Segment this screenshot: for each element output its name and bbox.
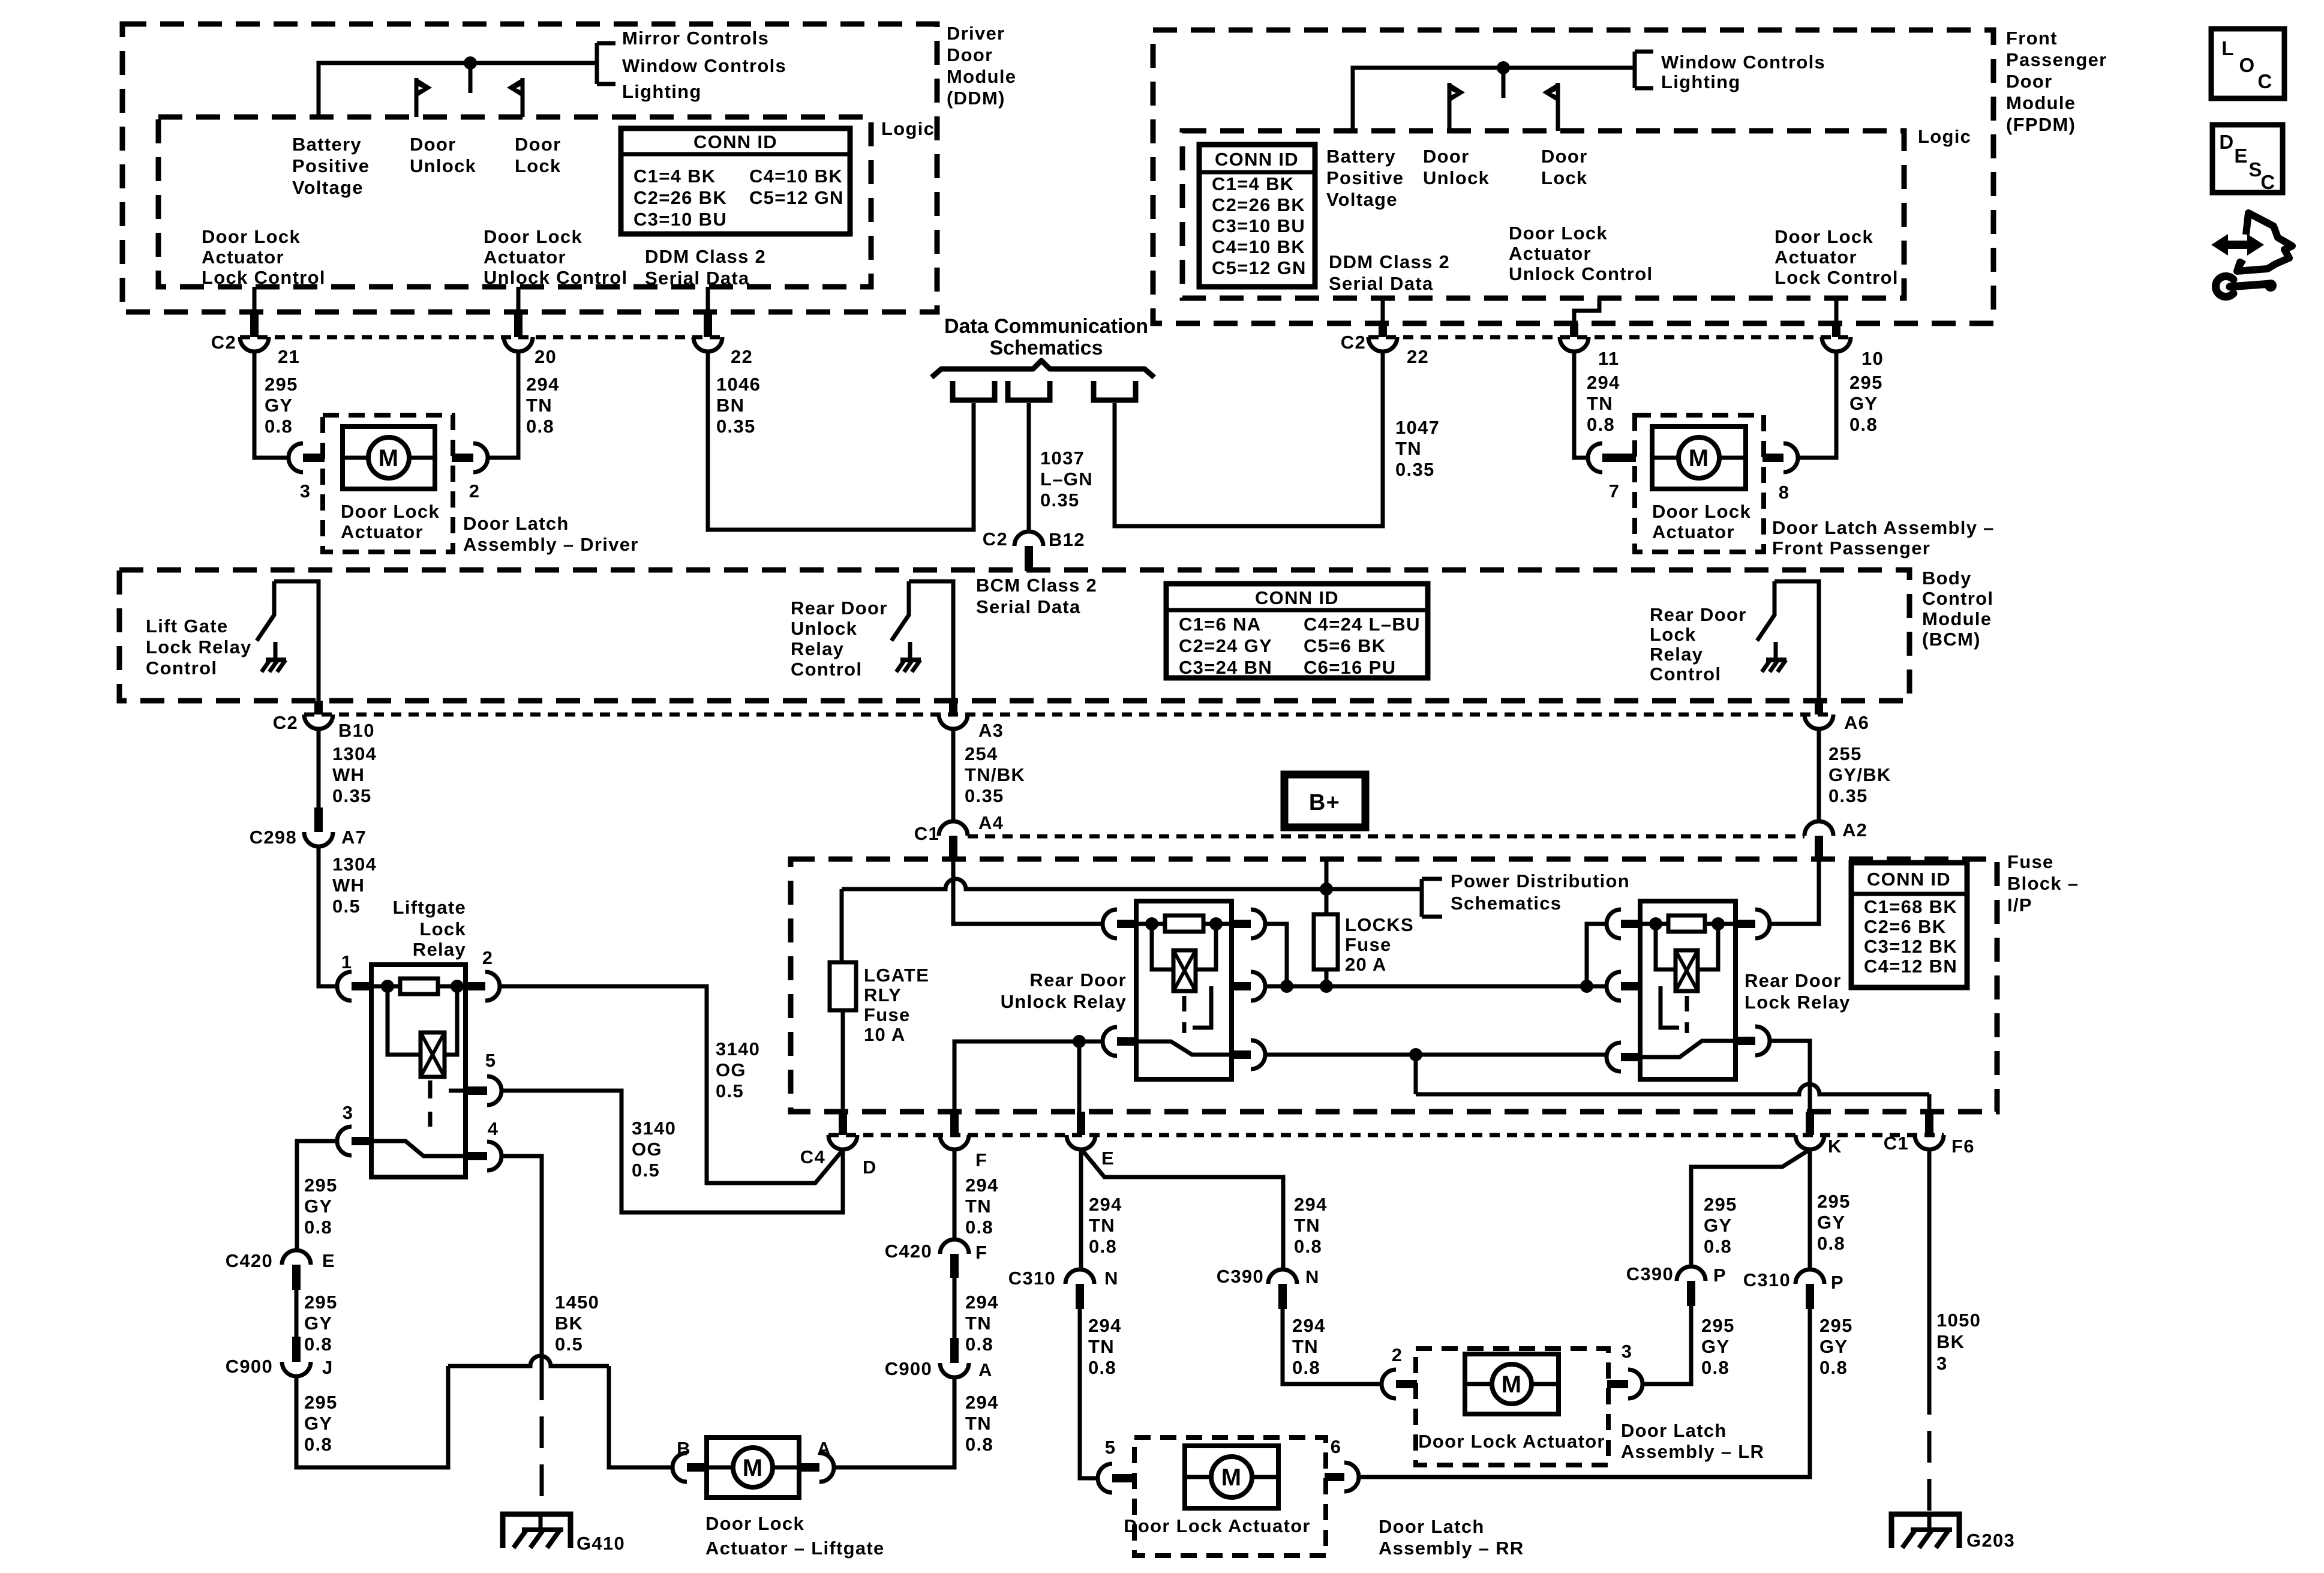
CONN ID table fuse block [1851, 863, 1967, 987]
switch rear door lock relay control (BCM) [1757, 581, 1819, 701]
armature dashes (lock relay) [1661, 986, 1687, 1033]
svg-text:A2: A2 [1842, 819, 1867, 840]
svg-text:Door Latch: Door Latch [1621, 1420, 1727, 1441]
label Door Lock Actuator Lock Control (FPDM) [1774, 226, 1899, 288]
svg-text:C1=68 BK: C1=68 BK [1864, 896, 1957, 917]
svg-text:Relay: Relay [791, 638, 844, 659]
svg-text:A6: A6 [1844, 712, 1869, 733]
connector C298 pin A7 [250, 807, 367, 848]
node lock relay res right [1712, 917, 1725, 930]
svg-text:3: 3 [343, 1102, 354, 1123]
svg-text:Actuator – Liftgate: Actuator – Liftgate [705, 1538, 885, 1559]
node bus at 2145 [1280, 980, 1293, 993]
svg-text:C310: C310 [1743, 1269, 1791, 1290]
svg-text:294: 294 [526, 374, 560, 395]
label Door Latch Assembly - Front Passenger [1772, 517, 1995, 559]
node unlock relay res left [1145, 917, 1158, 930]
wire DDM pin22 lead [706, 287, 710, 312]
svg-text:GY: GY [1704, 1215, 1732, 1236]
svg-text:TN: TN [1089, 1215, 1115, 1236]
svg-text:295: 295 [1849, 372, 1883, 393]
svg-text:GY: GY [1819, 1336, 1848, 1357]
label Door Lock Actuator Lock Control (DDM) [202, 226, 326, 288]
Fuse block bottom strip (dotted) [828, 1133, 1944, 1137]
svg-text:294: 294 [965, 1392, 999, 1413]
svg-text:Schematics: Schematics [990, 337, 1103, 359]
connector C390 pin N [1217, 1266, 1320, 1309]
service icon outline [2237, 213, 2292, 271]
svg-text:Front Passenger: Front Passenger [1772, 538, 1930, 559]
label circuit 254 TN/BK 0.35 [965, 743, 1025, 806]
svg-text:Lock Control: Lock Control [1774, 267, 1899, 288]
svg-text:Unlock: Unlock [410, 155, 476, 176]
svg-text:Actuator: Actuator [341, 521, 424, 542]
svg-text:C5=6 BK: C5=6 BK [1304, 635, 1386, 656]
svg-text:295: 295 [1701, 1315, 1735, 1336]
label DDM Class 2 Serial Data (FPDM) [1329, 251, 1450, 294]
svg-text:295: 295 [304, 1175, 338, 1196]
connector C390 pin P [1626, 1263, 1727, 1306]
armature dashes (liftgate relay) [428, 1080, 433, 1127]
svg-text:Lock: Lock [419, 918, 466, 939]
svg-text:C5=12 GN: C5=12 GN [749, 187, 844, 208]
svg-text:Schematics: Schematics [1451, 893, 1562, 914]
svg-text:M: M [1502, 1371, 1523, 1398]
wire LGATE fuse feed with hop [842, 879, 1422, 962]
label Driver Door Module (DDM) [947, 23, 1016, 109]
svg-text:Relay: Relay [1650, 644, 1703, 665]
svg-text:B: B [677, 1438, 691, 1459]
motor M front passenger door lock actuator [1652, 427, 1746, 489]
svg-text:Fuse: Fuse [2007, 851, 2054, 872]
svg-text:Door Latch Assembly –: Door Latch Assembly – [1772, 517, 1995, 538]
svg-text:254: 254 [965, 743, 998, 764]
svg-text:GY: GY [1817, 1212, 1845, 1233]
wire fused lock bus [1265, 984, 1593, 989]
svg-text:Lock: Lock [1650, 624, 1697, 645]
svg-text:0.35: 0.35 [1828, 785, 1868, 806]
motor M door lock actuator LR [1465, 1354, 1559, 1414]
label Front Passenger Door Module (FPDM) [2006, 28, 2107, 135]
connector pin B (liftgate actuator) [672, 1438, 708, 1482]
svg-text:WH: WH [332, 764, 365, 785]
svg-text:1450: 1450 [555, 1292, 599, 1313]
svg-text:TN: TN [965, 1413, 992, 1434]
svg-text:Driver: Driver [947, 23, 1005, 44]
svg-text:0.8: 0.8 [965, 1217, 993, 1238]
svg-text:3140: 3140 [632, 1118, 676, 1139]
svg-text:(DDM): (DDM) [947, 88, 1005, 109]
svg-text:Rear Door: Rear Door [1744, 970, 1842, 991]
label Door Lock Actuator - Liftgate [705, 1513, 885, 1559]
connector C900 pin A [885, 1338, 993, 1380]
node unlock relay res right [1209, 917, 1223, 930]
svg-text:Lift Gate: Lift Gate [146, 616, 228, 637]
svg-text:TN/BK: TN/BK [965, 764, 1025, 785]
wire unlock common return to F6 [1416, 1055, 1929, 1112]
connector pin A (liftgate actuator) [798, 1438, 834, 1482]
svg-text:0.8: 0.8 [526, 416, 554, 437]
svg-text:BN: BN [716, 395, 744, 416]
wire 1050 BK solid [1927, 1149, 1932, 1383]
wire FPDM pin10 lead [1834, 298, 1839, 323]
svg-text:Module: Module [1922, 608, 1992, 629]
svg-text:2: 2 [469, 481, 481, 502]
connector lock relay pin 85 (mid left) [1607, 972, 1641, 1001]
svg-text:C1: C1 [1884, 1133, 1909, 1154]
svg-text:C4: C4 [800, 1146, 825, 1167]
svg-text:0.8: 0.8 [965, 1434, 993, 1455]
label circuit 295 GY 0.8 (below C310 P) [1819, 1315, 1853, 1378]
svg-text:1304: 1304 [332, 854, 377, 875]
svg-text:Assembly – RR: Assembly – RR [1379, 1538, 1524, 1559]
svg-text:M: M [1221, 1464, 1242, 1491]
Door Latch Assembly LR dashed box [1416, 1349, 1608, 1465]
armature dashes (unlock relay) [1184, 986, 1211, 1033]
svg-text:Door: Door [1541, 146, 1588, 167]
label Liftgate Lock Relay [393, 897, 466, 960]
wire 295 GY to driver actuator [254, 352, 289, 458]
svg-text:C2: C2 [211, 332, 236, 353]
CONN ID table BCM [1166, 584, 1428, 678]
svg-text:7: 7 [1609, 481, 1620, 502]
label Power Distribution Schematics [1451, 870, 1630, 914]
Fuse block connector strip (dotted) [968, 834, 1804, 839]
svg-text:0.8: 0.8 [1817, 1233, 1845, 1254]
motor M driver door lock actuator [343, 427, 435, 489]
svg-text:295: 295 [304, 1392, 338, 1413]
wire FPDM pin22 lead [1381, 298, 1385, 323]
label Window Controls (FPDM) [1661, 52, 1825, 73]
svg-text:C: C [2257, 70, 2272, 92]
wire A6 to A2 [1817, 729, 1821, 821]
label BCM Class 2 Serial Data [976, 575, 1097, 617]
wire A to C900/A [834, 1377, 954, 1467]
svg-text:3140: 3140 [716, 1038, 760, 1059]
wire C420F to C900A [953, 1278, 957, 1338]
label Door Unlock (FPDM) [1423, 146, 1490, 188]
svg-text:C: C [2260, 171, 2275, 193]
svg-text:OG: OG [632, 1139, 662, 1160]
fuse LOCKS 20A [1314, 914, 1338, 969]
svg-text:TN: TN [965, 1313, 992, 1334]
resistor (lock relay) [1640, 915, 1736, 932]
svg-text:Positive: Positive [1326, 167, 1404, 188]
svg-text:Passenger: Passenger [2006, 49, 2107, 70]
node FPDM bus junction [1497, 61, 1510, 98]
svg-text:LOCKS: LOCKS [1345, 914, 1414, 935]
svg-text:5: 5 [1105, 1437, 1116, 1458]
svg-text:LGATE: LGATE [864, 965, 929, 986]
wire FPDM pin11 lead [1574, 298, 1599, 323]
svg-text:E: E [2234, 145, 2248, 167]
Liftgate Lock Relay box [371, 965, 466, 1177]
node junction B+ feed [1320, 882, 1333, 896]
wire A2 to lock relay 87 [1770, 861, 1819, 924]
bracket to window/lighting (FPDM) [1635, 52, 1653, 88]
wire C390P to K [1691, 1149, 1810, 1266]
label Battery Positive Voltage (FPDM) [1326, 146, 1404, 210]
label circuit 295 GY 0.8 (E to J) [304, 1292, 338, 1355]
svg-text:Data Communication: Data Communication [944, 315, 1148, 338]
svg-text:A3: A3 [978, 720, 1004, 741]
svg-text:GY: GY [304, 1313, 332, 1334]
flag Door Lock (DDM) [507, 78, 523, 117]
fuse LGATE RLY 10A [830, 962, 856, 1010]
wire unlock out to lock common [1265, 1053, 1607, 1057]
svg-text:Liftgate: Liftgate [393, 897, 466, 918]
svg-text:294: 294 [1089, 1194, 1122, 1215]
svg-text:B+: B+ [1309, 790, 1340, 815]
wire DDM pin20 lead [517, 287, 521, 312]
svg-text:C900: C900 [885, 1358, 932, 1379]
svg-text:294: 294 [1088, 1315, 1122, 1336]
svg-text:0.35: 0.35 [965, 785, 1004, 806]
label Lighting (FPDM) [1661, 71, 1741, 92]
wire 294 TN to FPDM actuator [1574, 352, 1588, 458]
svg-text:F: F [975, 1149, 987, 1170]
svg-text:1037: 1037 [1040, 448, 1085, 469]
label Door Latch Assembly - LR [1621, 1420, 1764, 1462]
label circuit 295 GY 0.8 (K wire) [1817, 1191, 1851, 1254]
label Door Lock Actuator Unlock Control (FPDM) [1509, 223, 1653, 284]
svg-text:C4=10 BK: C4=10 BK [1212, 236, 1305, 257]
svg-text:Voltage: Voltage [292, 177, 364, 198]
wire C390N to LR actuator pin2 [1283, 1309, 1382, 1384]
CONN ID table DDM [621, 128, 850, 234]
svg-text:0.8: 0.8 [304, 1217, 332, 1238]
svg-text:Unlock Control: Unlock Control [484, 267, 627, 288]
label circuit 255 GY/BK 0.35 [1828, 743, 1891, 806]
svg-text:C3=24 BN: C3=24 BN [1179, 657, 1272, 678]
svg-text:GY: GY [304, 1413, 332, 1434]
connector C2 pin 22 (FPDM) [1341, 323, 1429, 367]
label Door Lock (DDM) [515, 134, 562, 176]
svg-text:Door Lock: Door Lock [1774, 226, 1873, 247]
label Lift Gate Lock Relay Control [146, 616, 252, 679]
svg-text:C900: C900 [226, 1356, 273, 1377]
label circuit 295 GY 0.8 (LR upper) [1704, 1194, 1737, 1257]
svg-text:0.8: 0.8 [1292, 1357, 1320, 1378]
wire liftgate relay pin3 to C420/E [297, 1141, 337, 1250]
bracket to mirror/window/lighting [597, 43, 615, 84]
svg-text:Fuse: Fuse [864, 1004, 911, 1025]
svg-text:3: 3 [300, 481, 311, 502]
svg-text:GY/BK: GY/BK [1828, 764, 1891, 785]
connector pin 5 (RR latch) [1098, 1437, 1136, 1493]
svg-text:C4=24 L–BU: C4=24 L–BU [1304, 614, 1421, 635]
svg-text:Door Lock: Door Lock [1509, 223, 1608, 244]
svg-text:295: 295 [1819, 1315, 1853, 1336]
svg-text:295: 295 [265, 374, 298, 395]
node bus at LOCKS fuse [1320, 980, 1333, 993]
svg-text:(BCM): (BCM) [1922, 629, 1981, 650]
svg-text:0.8: 0.8 [265, 416, 293, 437]
svg-text:Relay: Relay [413, 939, 466, 960]
svg-text:C3=10 BU: C3=10 BU [633, 209, 727, 230]
connector pin A6 (BCM) [1804, 701, 1869, 733]
svg-text:C2: C2 [983, 529, 1008, 550]
connector unlock relay pin 87 (top right) [1232, 909, 1265, 938]
coil (liftgate relay) [388, 986, 457, 1077]
connector lock relay pin 86 (top left) [1607, 909, 1641, 938]
ground symbol (lift gate switch) [0, 0, 1, 1]
svg-text:CONN ID: CONN ID [1215, 149, 1299, 170]
svg-text:0.8: 0.8 [1701, 1357, 1730, 1378]
svg-text:C1: C1 [914, 823, 939, 844]
svg-text:0.5: 0.5 [632, 1160, 660, 1181]
svg-text:22: 22 [1407, 346, 1429, 367]
wire 1037 L-GN run [1027, 403, 1031, 532]
svg-text:Module: Module [947, 66, 1016, 87]
svg-text:B12: B12 [1049, 529, 1085, 550]
svg-text:0.8: 0.8 [1089, 1236, 1117, 1257]
svg-text:Module: Module [2006, 92, 2076, 113]
label circuit 295 GY 0.8 (DDM pin21) [265, 374, 298, 437]
Rear Door Unlock Relay box [1136, 901, 1232, 1079]
svg-text:Front: Front [2006, 28, 2058, 49]
wire F to C420/F [953, 1149, 957, 1239]
ground G410 [503, 1512, 625, 1554]
FPDM C2 connector strip (dotted) [1368, 335, 1851, 340]
wire K to C310/P [1808, 1149, 1812, 1269]
svg-text:0.8: 0.8 [304, 1434, 332, 1455]
switch rear door unlock relay control (BCM) [891, 581, 953, 701]
wire C310N to RR actuator pin5 [1080, 1309, 1098, 1478]
connector lock relay switch out (bottom right) [1736, 1026, 1770, 1055]
label DDM Class 2 Serial Data (DDM) [645, 246, 766, 289]
svg-text:Lock Control: Lock Control [202, 267, 326, 288]
svg-text:A4: A4 [978, 812, 1004, 833]
service icon wrench [2215, 276, 2277, 296]
connector pin 3 (driver latch) [289, 443, 325, 502]
svg-text:M: M [1689, 445, 1710, 472]
connector pin 20 (DDM) [504, 312, 557, 367]
svg-text:Logic: Logic [881, 118, 935, 139]
label Door Lock Actuator (FP) [1652, 501, 1751, 542]
svg-text:GY: GY [1849, 393, 1878, 414]
flag Door Unlock (DDM) [416, 78, 432, 117]
svg-text:0.35: 0.35 [1040, 490, 1080, 511]
svg-text:N: N [1104, 1268, 1119, 1289]
svg-text:C2: C2 [1341, 332, 1366, 353]
Rear Door Lock Relay box [1640, 901, 1736, 1079]
DDM C2 connector strip (dotted) [240, 335, 726, 340]
connector liftgate relay pin 5 [466, 1050, 502, 1105]
wire 1047 TN run [1115, 352, 1383, 526]
label Body Control Module (BCM) [1922, 568, 1993, 650]
label circuit 295 GY 0.8 (below J) [304, 1392, 338, 1455]
connector liftgate relay pin 4 [466, 1118, 502, 1170]
svg-text:0.5: 0.5 [716, 1080, 744, 1101]
svg-text:0.35: 0.35 [716, 416, 756, 437]
svg-text:BK: BK [555, 1313, 583, 1334]
svg-text:Control: Control [1650, 664, 1721, 685]
connector C4 pin D [800, 1112, 877, 1178]
Driver Door Module (DDM) dashed box [122, 24, 937, 312]
svg-text:CONN ID: CONN ID [693, 131, 777, 152]
label Fuse Block I/P [2007, 851, 2079, 915]
Door Latch Assembly Driver dashed box [323, 415, 453, 552]
wire B10 to C298 [317, 729, 321, 807]
svg-text:255: 255 [1828, 743, 1862, 764]
label LOCKS Fuse 20 A [1345, 914, 1414, 975]
svg-text:294: 294 [1292, 1315, 1326, 1336]
svg-text:TN: TN [1088, 1336, 1115, 1357]
connector pin 3 (LR latch) [1607, 1341, 1643, 1398]
wire 294 TN to DDM pin20 [488, 352, 518, 458]
svg-text:2: 2 [1392, 1344, 1403, 1365]
svg-text:Door Lock: Door Lock [341, 501, 440, 522]
svg-text:L: L [2221, 37, 2234, 59]
svg-text:Block –: Block – [2007, 873, 2079, 894]
label circuit 1304 WH 0.35 [332, 743, 377, 806]
svg-text:Actuator: Actuator [1509, 243, 1592, 264]
label circuit 1037 L-GN 0.35 [1040, 448, 1093, 511]
wire unlock 87 to bus [1265, 924, 1287, 986]
connector unlock relay switch out (bottom right) [1232, 1040, 1265, 1069]
wire lock relay mid-left feed [1593, 984, 1607, 989]
flag Door Lock (FPDM) [1542, 83, 1558, 131]
svg-text:0.35: 0.35 [332, 785, 372, 806]
svg-text:WH: WH [332, 875, 365, 896]
switch blade (lock relay) [1640, 1041, 1736, 1057]
svg-text:C1=6 NA: C1=6 NA [1179, 614, 1261, 635]
svg-text:D: D [863, 1157, 877, 1178]
svg-text:BK: BK [1936, 1331, 1965, 1352]
wire A3 to C1/A4 [951, 729, 956, 821]
svg-text:C4=12 BN: C4=12 BN [1864, 956, 1957, 977]
label circuit 294 TN 0.8 (F upper) [965, 1175, 999, 1238]
svg-text:Unlock: Unlock [791, 618, 857, 639]
svg-text:B10: B10 [338, 720, 375, 741]
svg-text:C2=6 BK: C2=6 BK [1864, 916, 1946, 937]
connector pin 10 (FPDM) [1822, 323, 1884, 369]
connector C420 pin E [226, 1250, 335, 1290]
svg-text:L–GN: L–GN [1040, 469, 1093, 490]
Front Passenger Door Module (FPDM) dashed box [1153, 30, 1993, 323]
wire A7 to liftgate relay pin1 [319, 846, 337, 986]
svg-text:E: E [1101, 1148, 1115, 1169]
label circuit 294 TN 0.8 (DDM pin20) [526, 374, 560, 437]
svg-text:Body: Body [1922, 568, 1972, 589]
DESC reference box [2212, 125, 2283, 193]
svg-text:Unlock Relay: Unlock Relay [1001, 991, 1127, 1012]
connector liftgate relay pin 2 [466, 947, 500, 1001]
svg-text:294: 294 [965, 1292, 999, 1313]
label circuit 1046 BN 0.35 [716, 374, 761, 437]
brace data communication [932, 361, 1154, 377]
wire 1046 BN run [708, 352, 974, 530]
label Window Controls [622, 55, 786, 76]
svg-text:Battery: Battery [292, 134, 362, 155]
svg-text:DDM Class 2: DDM Class 2 [1329, 251, 1450, 272]
svg-text:GY: GY [304, 1196, 332, 1217]
svg-text:P: P [1831, 1272, 1844, 1293]
svg-text:N: N [1305, 1266, 1320, 1287]
wire E diagonal branch [1082, 1149, 1283, 1269]
svg-text:2: 2 [482, 947, 494, 968]
service icon double arrow [2211, 234, 2264, 256]
label Logic (FPDM) [1918, 126, 1971, 147]
wire B+ to LOCKS fuse [1325, 860, 1329, 914]
svg-text:A: A [817, 1438, 831, 1459]
LOC reference box [2211, 29, 2284, 98]
svg-text:1047: 1047 [1395, 417, 1440, 438]
svg-text:RLY: RLY [864, 984, 902, 1005]
wire E straight branch [1079, 1149, 1083, 1269]
label Door Unlock (DDM) [410, 134, 476, 176]
